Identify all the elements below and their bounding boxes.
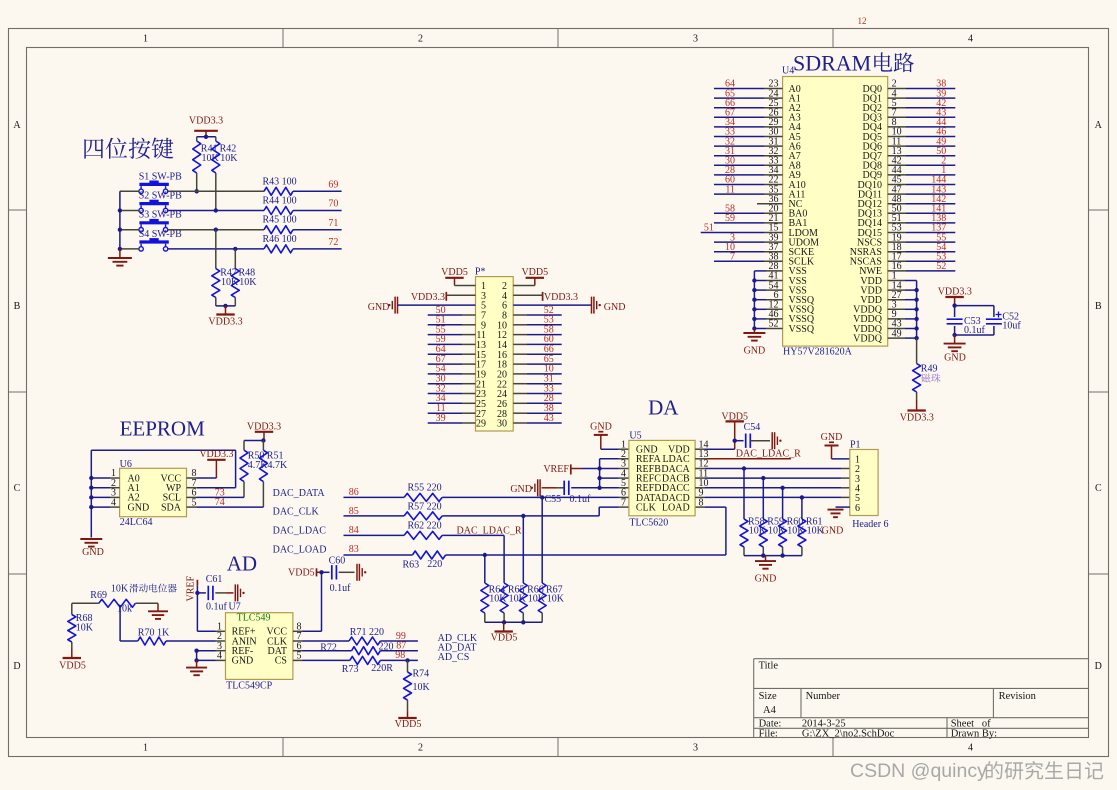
wire P* pin23 net 32 — [428, 393, 476, 395]
wire VREF vertical tie — [597, 459, 601, 490]
svg-text:S2 SW-PB: S2 SW-PB — [139, 191, 182, 202]
resistor R72 — [320, 641, 393, 654]
svg-text:10K: 10K — [413, 682, 431, 693]
ground U5 GND pin — [590, 421, 629, 449]
net label DAC_LDAC — [273, 526, 327, 537]
IC U4 part number — [783, 347, 853, 358]
svg-text:A4: A4 — [763, 705, 777, 716]
net number 53 — [544, 315, 554, 326]
net number 39 — [436, 413, 446, 424]
wire P* pin15 net 64 — [428, 353, 476, 355]
svg-text:R71 220: R71 220 — [350, 627, 384, 638]
wire P* pin8 net 52 — [513, 314, 562, 316]
svg-text:10uf: 10uf — [1002, 321, 1021, 332]
svg-text:VDD3.3: VDD3.3 — [199, 449, 233, 460]
wire U4 A8 net 30 — [714, 164, 783, 166]
resistor R67 — [538, 497, 565, 622]
svg-text:0.1uf: 0.1uf — [570, 494, 592, 505]
svg-text:24LC64: 24LC64 — [120, 517, 153, 528]
svg-text:CS: CS — [275, 656, 287, 667]
wire P* pin14 net 60 — [513, 343, 562, 345]
net number 64 — [436, 344, 446, 355]
wire U4 A9 net 28 — [714, 174, 783, 176]
svg-text:83: 83 — [349, 544, 359, 555]
svg-text:GND: GND — [821, 432, 843, 443]
svg-text:220R: 220R — [371, 663, 393, 674]
net number 33 — [725, 127, 735, 138]
net number 60 — [725, 175, 735, 186]
net number 65 — [544, 354, 554, 365]
resistor R61 — [798, 497, 825, 555]
net number 34 — [725, 117, 735, 128]
svg-text:R44 100: R44 100 — [263, 196, 297, 207]
wire AD_DAT — [293, 650, 352, 652]
wire U4 NWE net 52 — [888, 270, 956, 272]
net number 67 — [436, 354, 446, 365]
svg-text:Size: Size — [759, 691, 777, 702]
svg-text:VDD3.3: VDD3.3 — [411, 292, 445, 303]
svg-text:C55: C55 — [545, 494, 562, 505]
net label VDD3.3 pin3 — [411, 292, 476, 303]
net number 38 — [936, 79, 946, 90]
wire row S2 left — [120, 210, 139, 212]
wire DAC_DATA right — [442, 495, 629, 499]
resistor R57 — [404, 502, 442, 520]
resistor R70 — [120, 628, 225, 645]
wire U4 A10 net 60 — [714, 184, 783, 186]
svg-text:DAC_DATA: DAC_DATA — [273, 488, 326, 499]
wire U4 VDD bus — [888, 281, 919, 341]
wire row S3 left — [120, 229, 139, 231]
svg-text:VDD5: VDD5 — [521, 267, 548, 278]
net label VDD3.3 pin4 — [513, 292, 578, 303]
net label AD_DAT — [438, 643, 477, 654]
net number 7 — [730, 252, 735, 263]
svg-text:3: 3 — [693, 743, 698, 754]
svg-text:43: 43 — [544, 413, 554, 424]
net number 141 — [931, 204, 946, 215]
wire U4 A1 net 65 — [714, 97, 783, 99]
wire P* pin28 net 38 — [513, 412, 562, 414]
ground C53 — [944, 335, 966, 364]
resistor R46 — [263, 234, 297, 253]
power VDD5 at U5 — [695, 411, 748, 449]
net number 54 — [436, 364, 446, 375]
svg-text:0.1uf: 0.1uf — [964, 325, 986, 336]
wire U4 DQ11 net 143 — [888, 193, 956, 195]
U6 pin labels and numbers — [111, 468, 197, 513]
svg-text:A: A — [13, 120, 21, 131]
svg-text:C: C — [14, 483, 21, 494]
section title 四位按键 — [84, 138, 173, 159]
resistor R64 — [481, 555, 508, 622]
power ground at C61 — [215, 584, 244, 601]
resistor R71 — [349, 627, 384, 645]
capacitor C60 — [319, 556, 351, 594]
net number 28 — [544, 393, 554, 404]
svg-text:P1: P1 — [850, 439, 861, 450]
svg-text:R45 100: R45 100 — [263, 215, 297, 226]
wire R41-R42 top tie — [197, 135, 216, 139]
svg-text:GND: GND — [232, 656, 254, 667]
net number 67 — [725, 108, 735, 119]
net number 84 — [349, 525, 359, 536]
svg-text:C54: C54 — [744, 422, 761, 433]
net number 42 — [936, 98, 946, 109]
wire P* pin17 net 67 — [428, 363, 476, 365]
svg-text:VDD3.3: VDD3.3 — [544, 292, 578, 303]
wire P* pin16 net 66 — [513, 353, 562, 355]
svg-text:VDD3.3: VDD3.3 — [189, 116, 223, 127]
resistor R51 — [259, 441, 288, 508]
svg-text:TLC5620: TLC5620 — [629, 517, 668, 528]
wire U4 DQ7 net 50 — [888, 155, 956, 157]
power VDD5 right of P* — [521, 267, 548, 286]
wire P* pin1 — [455, 285, 476, 287]
net number 85 — [349, 506, 359, 517]
net number 32 — [436, 383, 446, 394]
svg-text:DAC_LOAD: DAC_LOAD — [273, 545, 327, 556]
svg-text:HY57V281620A: HY57V281620A — [783, 347, 853, 358]
resistor R69 — [72, 590, 158, 608]
net number 43 — [544, 413, 554, 424]
pot label 10K 滑动电位器 — [111, 584, 177, 595]
svg-text:Title: Title — [759, 661, 779, 672]
resistor R50 — [240, 441, 268, 498]
ground above P1 — [821, 432, 850, 459]
capacitor C54 — [735, 422, 761, 448]
wire row S3 middle — [168, 229, 264, 231]
wire row S2 middle — [168, 210, 264, 212]
svg-text:EEPROM: EEPROM — [120, 417, 206, 441]
wire P* pin24 net 33 — [513, 393, 562, 395]
power VDD5 below pull-ups — [491, 622, 518, 643]
section title AD — [227, 551, 257, 575]
net number 39 — [936, 88, 946, 99]
title block grid — [754, 659, 1089, 738]
net number 30 — [436, 374, 446, 385]
net number 58 — [544, 324, 554, 335]
resistor R47 — [212, 230, 239, 306]
wire U4 DQ3 net 43 — [888, 116, 956, 118]
svg-text:DAC_CLK: DAC_CLK — [273, 507, 320, 518]
connector P* designator — [475, 267, 486, 278]
net number 59 — [436, 334, 446, 345]
resistor R49 ferrite bead — [913, 338, 938, 400]
net number 52 — [936, 261, 946, 272]
power VDD5 below R74 — [395, 712, 422, 730]
svg-text:VDD5: VDD5 — [491, 633, 518, 644]
svg-text:GND: GND — [755, 574, 777, 585]
junction R41 row1 — [195, 189, 199, 193]
svg-text:U7: U7 — [229, 602, 241, 613]
svg-text:0.1uf: 0.1uf — [206, 602, 228, 613]
svg-text:7: 7 — [621, 497, 626, 508]
svg-text:VDD5: VDD5 — [288, 567, 315, 578]
section title SDRAM电路 — [793, 51, 914, 76]
connector P1 body — [850, 450, 878, 516]
svg-text:VDD3.3: VDD3.3 — [208, 316, 242, 327]
svg-text:220: 220 — [427, 559, 442, 570]
net number 11 — [725, 184, 735, 195]
wire REFA — [600, 458, 629, 460]
wire P* pin11 net 55 — [428, 334, 476, 336]
svg-text:VSSQ: VSSQ — [789, 324, 815, 335]
capacitor C61 — [197, 574, 227, 613]
power VDD5 below R68 — [59, 649, 86, 672]
svg-text:10K: 10K — [787, 526, 805, 537]
ground U6 — [80, 539, 104, 558]
wire U4 DQ9 net 1 — [888, 174, 956, 176]
net number 2 — [941, 156, 946, 167]
net number 83 — [349, 544, 359, 555]
power VDD3.3 top of keypad — [189, 116, 223, 137]
svg-text:DAC_LDAC_R: DAC_LDAC_R — [457, 525, 522, 536]
svg-text:VREF: VREF — [186, 576, 197, 602]
svg-text:S4 SW-PB: S4 SW-PB — [139, 229, 182, 240]
svg-text:GND: GND — [604, 302, 626, 313]
svg-text:2: 2 — [418, 743, 423, 754]
net number 66 — [725, 98, 735, 109]
power VDD3.3 above R50 R51 — [247, 421, 281, 440]
power VDD3.3 below keypad — [208, 306, 242, 327]
IC U5 designator — [629, 431, 641, 442]
svg-text:52: 52 — [936, 261, 946, 272]
net number 64 — [725, 79, 735, 90]
svg-text:VDD3.3: VDD3.3 — [938, 287, 972, 298]
wire U4 A0 net 64 — [714, 88, 783, 90]
svg-text:D: D — [1095, 661, 1102, 672]
net number 44 — [936, 117, 946, 128]
net number 32 — [725, 136, 735, 147]
svg-text:GND: GND — [944, 353, 966, 364]
svg-text:R46 100: R46 100 — [263, 234, 297, 245]
wire U4 BA1 net 59 — [714, 222, 783, 224]
svg-text:AD: AD — [227, 551, 257, 575]
IC U6 body — [120, 468, 187, 516]
svg-text:DAC_LDAC_R: DAC_LDAC_R — [736, 449, 801, 460]
switch S1 — [139, 171, 182, 193]
wire P* pin19 net 54 — [428, 373, 476, 375]
wire P* pin21 net 30 — [428, 383, 476, 385]
svg-text:R73: R73 — [342, 664, 359, 675]
wire DACD to P1 — [695, 495, 850, 499]
svg-text:GND: GND — [82, 547, 104, 558]
net number 143 — [931, 184, 946, 195]
svg-text:R72: R72 — [320, 643, 337, 654]
wire P* pin27 net 11 — [428, 412, 476, 414]
wire row S1 right net 69 — [293, 190, 342, 192]
wire P* pin29 net 39 — [428, 422, 476, 424]
net label VREF vertical — [186, 576, 198, 602]
wire U4 BA0 net 58 — [714, 212, 783, 214]
wire U6 SCL net 73 — [187, 487, 245, 498]
wire DACC to P1 — [695, 486, 850, 490]
wire U6 WP loop — [91, 450, 235, 488]
svg-text:4: 4 — [968, 34, 973, 45]
svg-text:U4: U4 — [782, 65, 794, 76]
wire DACA to P1 — [695, 466, 850, 470]
svg-text:R62 220: R62 220 — [408, 521, 442, 532]
svg-text:98: 98 — [395, 650, 405, 661]
svg-text:DA: DA — [648, 395, 679, 419]
net number 51 — [704, 223, 714, 234]
svg-text:Revision: Revision — [999, 691, 1037, 702]
net number 59 — [725, 213, 735, 224]
wire P* pin25 net 34 — [428, 402, 476, 404]
net number 49 — [936, 136, 946, 147]
svg-text:51: 51 — [704, 223, 714, 234]
wire U4 DQ15 net 137 — [888, 232, 956, 234]
power ground at C54 — [750, 432, 781, 449]
capacitor C52 polarized — [986, 312, 1022, 332]
wire U4 A6 net 32 — [714, 145, 783, 147]
wire row S2 right net 70 — [293, 210, 342, 212]
wire REFC — [600, 477, 629, 479]
wire DAC_DATA left — [344, 496, 405, 498]
connector P1 name — [852, 519, 888, 530]
power ground pin5 — [368, 297, 476, 314]
pot wiper 10k — [117, 604, 132, 615]
net number 33 — [544, 383, 554, 394]
svg-text:R63: R63 — [403, 559, 420, 570]
wire U4 DQ10 net 144 — [888, 184, 956, 186]
wire P* pin20 net 10 — [513, 373, 562, 375]
resistor R48 — [231, 249, 257, 306]
svg-text:1: 1 — [143, 34, 148, 45]
svg-text:GND: GND — [510, 484, 532, 495]
wire R47-R48 bottom tie — [216, 304, 236, 308]
svg-text:R43 100: R43 100 — [263, 176, 297, 187]
svg-text:GND: GND — [128, 502, 150, 513]
svg-text:P*: P* — [475, 267, 486, 278]
resistor R74 — [404, 660, 431, 712]
ground keypad bus — [108, 249, 132, 266]
U4 left pin numbers — [769, 79, 779, 330]
svg-text:VDD5: VDD5 — [395, 719, 422, 730]
net number 71 — [328, 218, 338, 229]
wire DAC_LOAD left — [344, 554, 413, 556]
power VDD3.3 below R49 — [900, 400, 934, 423]
watermark CSDN @quincy的研究生日记 — [850, 760, 1103, 782]
IC U7 part number — [226, 681, 273, 692]
svg-text:SDA: SDA — [161, 502, 182, 513]
svg-text:B: B — [1095, 301, 1102, 312]
svg-text:Number: Number — [806, 691, 841, 702]
net number 43 — [936, 108, 946, 119]
svg-text:10K: 10K — [76, 623, 94, 634]
wire U4 NSRAS net 54 — [888, 251, 956, 253]
svg-text:VDD5: VDD5 — [59, 661, 86, 672]
net number 34 — [436, 393, 446, 404]
net label VREF — [543, 464, 581, 475]
svg-text:72: 72 — [328, 237, 338, 248]
wire U4 DQ12 net 142 — [888, 203, 956, 205]
junction R42 row2 — [214, 208, 218, 212]
wire P* pin7 net 50 — [428, 314, 476, 316]
junction R47 row3 — [214, 228, 218, 232]
net number 69 — [328, 180, 338, 191]
net number 30 — [725, 156, 735, 167]
wire U4 A7 net 31 — [714, 155, 783, 157]
wire P* pin13 net 59 — [428, 343, 476, 345]
wire P* pin26 net 28 — [513, 402, 562, 404]
svg-text:59: 59 — [725, 213, 735, 224]
net number 31 — [544, 374, 554, 385]
wire U4 DQ0 net 38 — [888, 88, 956, 90]
net label DAC_CLK — [273, 507, 320, 518]
svg-text:DAC_LDAC: DAC_LDAC — [273, 526, 327, 537]
svg-text:R49: R49 — [921, 363, 938, 374]
wire U7 REF- GND tie — [194, 649, 225, 663]
wire U4 DQ13 net 141 — [888, 212, 956, 214]
ground below R58-R61 — [755, 556, 777, 585]
svg-text:VREF: VREF — [543, 464, 569, 475]
wire P* pin12 net 58 — [513, 334, 562, 336]
wire U4 A11 net 11 — [714, 193, 783, 195]
svg-text:10K: 10K — [749, 526, 767, 537]
power VDD5 at C60 — [288, 567, 321, 578]
net number 53 — [936, 252, 946, 263]
net number 86 — [349, 487, 359, 498]
P* pin numbers — [476, 281, 507, 430]
wire DAC_LDAC right — [442, 534, 504, 536]
svg-text:10K: 10K — [111, 584, 129, 595]
wire AD_CLK — [293, 640, 349, 642]
IC U7 designator — [229, 602, 241, 613]
power VDD3.3 at U6 VCC — [187, 449, 234, 478]
red page number 12 — [858, 16, 867, 26]
net number 142 — [931, 194, 946, 205]
ground R69 — [148, 603, 168, 619]
switch S4 — [139, 229, 182, 251]
wire row S4 middle — [168, 248, 264, 250]
svg-text:C60: C60 — [329, 556, 346, 567]
ground U4 VSS — [743, 329, 765, 357]
wire C53-C52 loop — [952, 303, 994, 337]
U4 right pin labels — [850, 84, 883, 345]
power VDD5 left of P* — [441, 267, 468, 286]
wire DAC_LDAC left — [344, 534, 405, 536]
wire U4 A4 net 34 — [714, 126, 783, 128]
svg-text:GND: GND — [744, 346, 766, 357]
U4 pin 36 NC lead — [757, 203, 783, 205]
wire U4 A5 net 33 — [714, 136, 783, 138]
svg-text:TLC549CP: TLC549CP — [226, 681, 273, 692]
wire U4 DQ5 net 46 — [888, 136, 956, 138]
net number 138 — [931, 213, 946, 224]
power ground pin6 — [513, 297, 625, 314]
net number 51 — [436, 315, 446, 326]
svg-text:10k: 10k — [117, 604, 132, 615]
U5 pin labels and numbers — [621, 439, 709, 513]
net number 3 — [730, 232, 735, 243]
power VDD3.3 at C53 — [938, 287, 972, 306]
net number 28 — [725, 165, 735, 176]
wire row S4 right net 72 — [293, 248, 342, 250]
resistor R68 — [68, 603, 94, 648]
resistor R44 — [263, 196, 297, 215]
svg-text:74: 74 — [215, 497, 225, 508]
resistor R45 — [263, 215, 297, 234]
section title EEPROM — [120, 417, 206, 441]
svg-text:1: 1 — [143, 743, 148, 754]
svg-text:Drawn By:: Drawn By: — [951, 729, 997, 740]
net number 11 — [436, 403, 446, 414]
net number 38 — [544, 403, 554, 414]
svg-text:86: 86 — [349, 487, 359, 498]
svg-text:B: B — [14, 301, 21, 312]
